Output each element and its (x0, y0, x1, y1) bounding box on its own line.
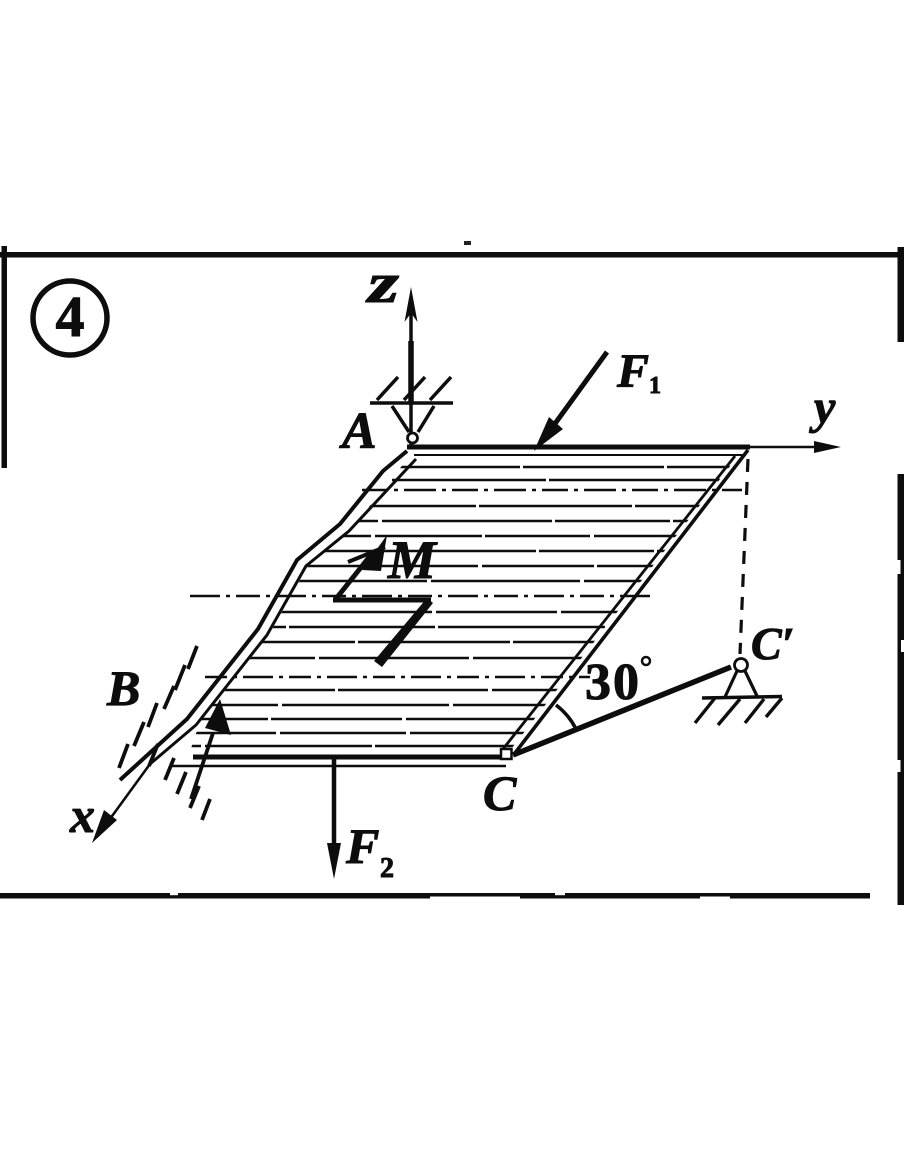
plate chain (dash-dot) line 2 (190, 595, 655, 597)
frame right border lower segment (898, 474, 905, 905)
plate left edge / axis x line (99, 451, 416, 834)
corner square at C (501, 749, 512, 759)
svg-text:4: 4 (56, 284, 85, 349)
svg-text:A: A (339, 403, 377, 460)
frame bottom border (0, 893, 870, 899)
label z (365, 253, 399, 315)
svg-text:30: 30 (585, 654, 641, 711)
svg-text:x: x (69, 787, 95, 843)
label 30 degrees (585, 654, 650, 711)
support B arrow (191, 699, 231, 799)
support A (hatched bar, V-pin, hinge circle) (370, 377, 453, 443)
rod C to C' (513, 667, 731, 755)
plate right edge (double line) (503, 450, 748, 753)
angle arc 30 degrees (556, 705, 576, 729)
frame top border (0, 241, 899, 258)
svg-text:2: 2 (380, 853, 394, 884)
plate top edge (double line) (407, 447, 750, 455)
label x (69, 787, 95, 843)
label y (809, 381, 836, 434)
plate hatching lines (150, 467, 780, 746)
axis x arrowhead (92, 810, 117, 843)
svg-text:z: z (365, 253, 399, 315)
force F2 arrow (327, 757, 341, 879)
plate bottom edge (double line) (172, 757, 512, 766)
label C' (751, 618, 795, 669)
label B (106, 660, 140, 716)
label F2 (345, 818, 394, 884)
support B hatching (119, 646, 210, 820)
label A (339, 403, 377, 460)
svg-text:F: F (345, 818, 379, 874)
frame right border upper segment (898, 247, 905, 342)
axis y (750, 441, 841, 453)
plate chain (dash-dot) line 3 (205, 676, 590, 678)
frame left border (2, 246, 8, 468)
svg-text:1: 1 (649, 373, 661, 399)
svg-text:M: M (387, 530, 438, 590)
label F1 (616, 345, 661, 399)
support C' (hinge circle, triangle, hatched base) (695, 659, 782, 726)
figure number circle 4 (33, 281, 107, 355)
label C (483, 765, 517, 821)
svg-text:B: B (106, 660, 140, 716)
svg-text:F: F (616, 345, 649, 398)
dashed projection line C' (740, 459, 748, 654)
svg-text:C′: C′ (751, 618, 795, 669)
svg-text:y: y (809, 381, 836, 434)
moment M zigzag arrow (333, 535, 433, 667)
svg-text:C: C (483, 765, 517, 821)
plate chain (dash-dot) line 1 (362, 489, 742, 491)
label M (387, 530, 438, 590)
force F1 arrow (534, 352, 607, 451)
axis z (405, 287, 418, 448)
